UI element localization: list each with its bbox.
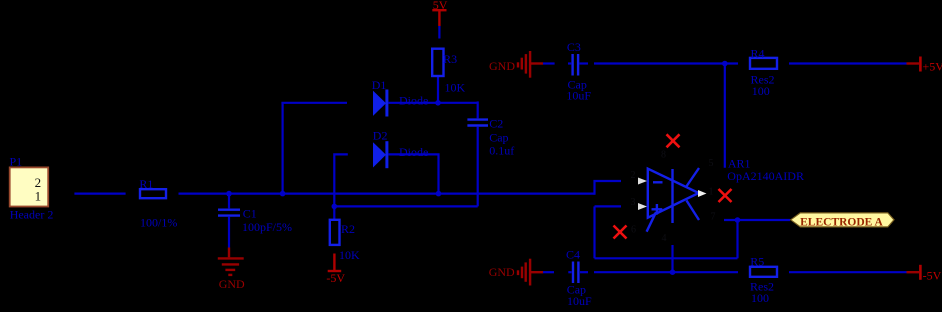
no-ERC marker X bottom-left — [614, 226, 627, 239]
svg-text:GND: GND — [219, 277, 245, 291]
svg-text:D1: D1 — [372, 78, 387, 92]
svg-text:0.1uf: 0.1uf — [489, 143, 514, 157]
svg-text:GND: GND — [489, 265, 515, 279]
svg-text:6: 6 — [631, 225, 636, 236]
wire D1 cathode lead — [388, 102, 477, 104]
wire C1 bottom lead — [228, 217, 230, 248]
no-ERC marker X output — [719, 189, 732, 202]
resistor R5 — [750, 255, 777, 306]
wire top rail — [594, 62, 738, 64]
svg-text:ELECTRODE A: ELECTRODE A — [800, 216, 883, 228]
svg-text:C3: C3 — [567, 40, 581, 54]
wire R3 bottom lead — [437, 76, 439, 103]
wire main bus — [179, 193, 595, 195]
diode D1 — [372, 78, 429, 117]
node junction AR1 V+ tap — [722, 61, 728, 67]
wire bus2 D2/C2 — [334, 205, 477, 207]
op-amp AR1 — [647, 156, 804, 231]
svg-text:1: 1 — [35, 188, 42, 203]
wire P1 to R1 — [74, 193, 125, 195]
wire gnd stub bottom — [543, 271, 554, 273]
resistor R4 — [750, 46, 777, 98]
svg-text:R3: R3 — [443, 52, 457, 66]
resistor R1 — [139, 177, 177, 229]
svg-text:C1: C1 — [243, 207, 257, 221]
svg-text:10uF: 10uF — [567, 294, 592, 308]
power -5V below R2 — [326, 254, 345, 286]
node junction AR1 V- tap — [670, 269, 676, 275]
svg-text:R4: R4 — [751, 46, 765, 60]
svg-text:1: 1 — [709, 187, 714, 198]
svg-text:100pF/5%: 100pF/5% — [242, 220, 292, 234]
wire bus step up to - input — [595, 181, 622, 195]
node junction D2 anode bus2 — [332, 204, 338, 210]
power 5V — [432, 0, 448, 26]
wire gnd stub top — [543, 62, 555, 64]
svg-text:R2: R2 — [341, 222, 355, 236]
wire R3 top lead — [438, 26, 440, 39]
wire C1 top lead — [228, 194, 230, 209]
node junction output/feedback — [735, 217, 741, 223]
svg-text:100: 100 — [751, 291, 769, 305]
power GND bottom (sideways) — [489, 259, 543, 286]
wire D1 anode stub — [281, 102, 347, 104]
svg-text:OpA2140AIDR: OpA2140AIDR — [727, 169, 804, 183]
svg-text:Diode: Diode — [399, 145, 428, 159]
resistor R3 — [432, 49, 465, 95]
pin 3 arrow — [638, 203, 647, 210]
no-ERC marker X top — [667, 134, 680, 147]
svg-text:3: 3 — [631, 197, 636, 208]
svg-text:R1: R1 — [139, 177, 153, 191]
resistor R2 — [330, 220, 360, 262]
ground GND below C1 — [218, 248, 245, 291]
node junction R3/D1 — [435, 100, 441, 106]
wire D2 cathode lead — [388, 154, 438, 193]
wire feedback vertical — [736, 220, 738, 258]
svg-text:Cap: Cap — [489, 130, 508, 144]
svg-text:C2: C2 — [489, 116, 503, 130]
node junction D1 branch — [280, 191, 286, 197]
svg-text:+5V: +5V — [923, 60, 942, 74]
svg-text:10uF: 10uF — [566, 89, 591, 103]
svg-text:Header 2: Header 2 — [10, 208, 54, 222]
svg-text:100/1%: 100/1% — [140, 215, 177, 229]
wire D1 left vertical — [282, 103, 284, 194]
svg-text:-5V: -5V — [326, 271, 345, 285]
pin 2 arrow — [638, 178, 647, 185]
svg-text:5: 5 — [709, 158, 714, 169]
wire R2 top lead — [333, 206, 335, 219]
svg-text:R5: R5 — [750, 255, 764, 269]
wire bottom rail — [594, 271, 738, 273]
svg-text:5V: 5V — [433, 0, 448, 12]
pin 1 output arrow — [698, 190, 707, 197]
wire D2 anode stub — [334, 154, 348, 206]
svg-text:C4: C4 — [566, 248, 580, 262]
wire + input vertical — [593, 206, 595, 258]
power GND top (sideways) — [489, 51, 543, 78]
port ELECTRODE A — [791, 213, 894, 228]
node junction D2 cathode to bus — [436, 191, 442, 197]
svg-text:P1: P1 — [10, 154, 23, 168]
svg-text:10K: 10K — [339, 248, 360, 262]
power +5V — [907, 57, 942, 74]
wire bottom rail right — [789, 271, 907, 273]
capacitor C1 — [218, 207, 292, 235]
svg-text:-5V: -5V — [923, 268, 942, 282]
svg-text:GND: GND — [489, 59, 515, 73]
wire feedback bottom — [595, 257, 738, 259]
diode D2 — [373, 128, 429, 168]
wire AR1 V- lower — [671, 245, 673, 272]
node junction C1 tap — [226, 191, 232, 197]
wire top rail right — [789, 62, 907, 64]
svg-text:8: 8 — [661, 150, 666, 161]
power -5V right — [907, 265, 942, 283]
capacitor C3 — [566, 40, 591, 103]
svg-text:100: 100 — [752, 84, 770, 98]
capacitor C4 — [566, 248, 592, 308]
svg-text:10K: 10K — [445, 81, 466, 95]
connector P1 — [10, 154, 54, 221]
svg-text:Diode: Diode — [399, 94, 428, 108]
svg-text:D2: D2 — [373, 128, 388, 142]
wire output — [724, 219, 790, 221]
wire + input — [595, 205, 622, 207]
svg-text:4: 4 — [662, 233, 667, 244]
wire AR1 V+ vertical — [724, 64, 726, 168]
svg-text:2: 2 — [631, 170, 636, 181]
wire C2 bottom lead — [477, 127, 479, 207]
capacitor C2 — [467, 116, 514, 157]
wire C2 top lead — [477, 101, 479, 118]
svg-text:7: 7 — [711, 212, 716, 223]
